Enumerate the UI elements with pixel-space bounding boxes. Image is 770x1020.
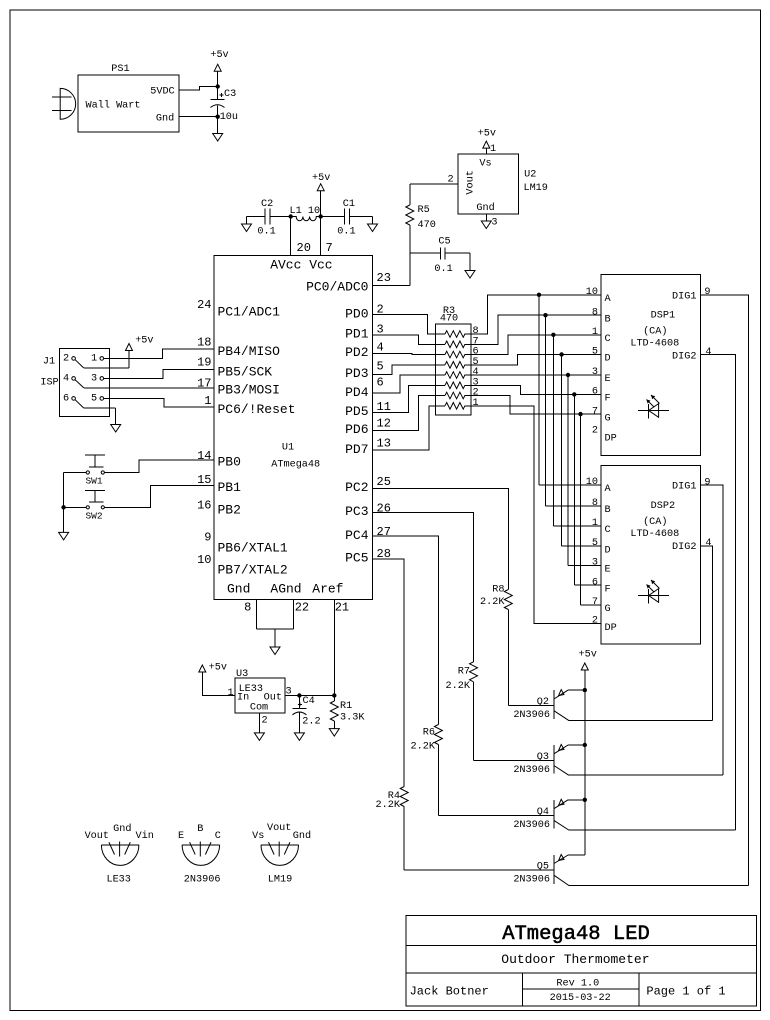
wire segment D xyxy=(471,354,601,364)
svg-text:2.2K: 2.2K xyxy=(411,742,436,753)
svg-text:ATmega48: ATmega48 xyxy=(271,460,320,471)
svg-text:3: 3 xyxy=(285,687,291,698)
svg-text:Vout: Vout xyxy=(466,170,477,194)
svg-text:E: E xyxy=(605,374,611,385)
svg-text:5: 5 xyxy=(377,359,384,373)
resistor R7 xyxy=(470,662,478,682)
svg-text:5: 5 xyxy=(592,347,598,358)
svg-text:2: 2 xyxy=(63,354,69,365)
ground rail xyxy=(63,473,65,533)
svg-text:+5v: +5v xyxy=(478,129,496,140)
svg-text:PD3: PD3 xyxy=(345,366,368,381)
svg-text:C1: C1 xyxy=(343,199,355,210)
svg-text:13: 13 xyxy=(377,437,391,451)
svg-text:+5v: +5v xyxy=(209,662,227,673)
svg-text:3: 3 xyxy=(592,558,598,569)
svg-text:C3: C3 xyxy=(224,89,236,100)
ground at C1 xyxy=(372,217,374,225)
wire segment A xyxy=(471,295,601,334)
svg-text:DIG2: DIG2 xyxy=(672,542,696,553)
svg-text:1: 1 xyxy=(592,327,598,338)
svg-text:8: 8 xyxy=(592,498,598,509)
svg-text:10: 10 xyxy=(586,477,598,488)
transistor Q5 xyxy=(404,855,748,886)
svg-text:PB2: PB2 xyxy=(218,503,241,518)
pin 3 Out wire xyxy=(285,695,334,697)
resistor R3-8 xyxy=(436,331,472,338)
svg-text:C: C xyxy=(215,831,221,842)
svg-text:6: 6 xyxy=(592,387,598,398)
svg-text:F: F xyxy=(605,394,611,405)
svg-text:7: 7 xyxy=(592,406,598,417)
svg-text:LE33: LE33 xyxy=(106,875,130,886)
svg-text:17: 17 xyxy=(197,377,211,391)
pin 21 Aref wire xyxy=(333,599,335,695)
PS1 box xyxy=(78,75,179,132)
svg-text:10u: 10u xyxy=(220,112,238,123)
wire segment F xyxy=(471,385,601,394)
node dot xyxy=(216,84,220,88)
node L1 right xyxy=(319,214,323,218)
svg-text:(CA): (CA) xyxy=(643,326,667,338)
svg-text:1: 1 xyxy=(473,398,479,409)
resistor R3-1 xyxy=(436,403,472,410)
svg-text:2: 2 xyxy=(592,616,598,627)
svg-text:25: 25 xyxy=(377,475,391,489)
svg-text:10: 10 xyxy=(586,287,598,298)
svg-text:2015-03-22: 2015-03-22 xyxy=(550,993,611,1004)
pin 7 wire xyxy=(320,217,322,256)
svg-text:2: 2 xyxy=(448,175,454,186)
wire to pin 23 xyxy=(373,285,410,287)
svg-text:DP: DP xyxy=(605,433,617,444)
svg-text:Outdoor Thermometer: Outdoor Thermometer xyxy=(501,952,649,967)
svg-text:3: 3 xyxy=(491,217,497,228)
resistor R5 xyxy=(409,184,411,205)
svg-text:PD7: PD7 xyxy=(345,442,368,457)
svg-text:DP: DP xyxy=(605,623,617,634)
pin 2 Com ground xyxy=(258,713,260,733)
svg-text:C2: C2 xyxy=(261,199,273,210)
wire Gnd to node xyxy=(179,116,218,118)
capacitor C3 xyxy=(217,87,219,100)
svg-text:Q4: Q4 xyxy=(537,807,549,818)
svg-text:AVcc Vcc: AVcc Vcc xyxy=(270,258,332,273)
svg-text:2.2: 2.2 xyxy=(302,717,320,728)
svg-text:(CA): (CA) xyxy=(643,516,667,528)
svg-text:8: 8 xyxy=(244,600,251,614)
svg-text:22: 22 xyxy=(295,600,309,614)
svg-text:DIG1: DIG1 xyxy=(672,291,696,302)
pin 1 In from +5v xyxy=(202,672,235,696)
svg-text:Q3: Q3 xyxy=(537,752,549,763)
ground xyxy=(217,117,219,134)
svg-text:18: 18 xyxy=(197,335,211,349)
svg-text:LTD-4608: LTD-4608 xyxy=(630,529,679,540)
svg-text:470: 470 xyxy=(440,314,458,325)
LED symbol DSP2 xyxy=(638,580,669,604)
LM19 pinout xyxy=(261,842,299,866)
svg-text:A: A xyxy=(605,294,612,305)
svg-text:SW2: SW2 xyxy=(85,511,102,522)
svg-text:PD2: PD2 xyxy=(345,345,368,360)
svg-text:1: 1 xyxy=(204,394,211,408)
svg-text:DIG2: DIG2 xyxy=(672,351,696,362)
svg-text:3.3K: 3.3K xyxy=(340,712,365,723)
switch SW2 xyxy=(85,489,105,491)
wire segment C xyxy=(471,335,601,355)
svg-text:LM19: LM19 xyxy=(268,875,292,886)
svg-text:PC3: PC3 xyxy=(345,504,368,519)
transistor Q4 xyxy=(438,799,735,830)
resistor R4 xyxy=(400,787,408,807)
svg-text:LM19: LM19 xyxy=(523,183,547,194)
LED symbol DSP1 xyxy=(638,395,669,419)
svg-text:J1: J1 xyxy=(43,357,55,368)
LE33 pinout xyxy=(101,842,138,866)
svg-text:Gnd: Gnd xyxy=(227,582,250,597)
ground at C5 xyxy=(469,253,471,270)
transistor Q2 xyxy=(508,690,712,721)
+5v symbol xyxy=(320,191,322,217)
svg-text:2.2K: 2.2K xyxy=(446,681,471,692)
svg-text:Q2: Q2 xyxy=(537,697,549,708)
svg-text:PB5/SCK: PB5/SCK xyxy=(218,364,273,379)
pin 5 wire to PC6 xyxy=(104,398,214,407)
svg-text:21: 21 xyxy=(335,600,349,614)
svg-text:Gnd: Gnd xyxy=(156,112,174,124)
svg-text:Wall Wart: Wall Wart xyxy=(86,100,141,112)
svg-text:D: D xyxy=(605,545,611,556)
svg-text:Rev 1.0: Rev 1.0 xyxy=(556,978,599,989)
svg-text:ATmega48 LED: ATmega48 LED xyxy=(502,923,650,946)
pin 3 wire to PB5 xyxy=(104,369,214,378)
svg-text:6: 6 xyxy=(592,577,598,588)
svg-text:Jack Botner: Jack Botner xyxy=(410,984,489,998)
wire PC4 to R6 xyxy=(373,536,439,724)
svg-text:In: In xyxy=(237,692,249,703)
wire 5VDC to C3 node xyxy=(179,87,218,91)
svg-text:2.2K: 2.2K xyxy=(480,597,505,608)
svg-text:5VDC: 5VDC xyxy=(150,86,174,97)
svg-text:PC2: PC2 xyxy=(345,480,368,495)
svg-text:PC6/!Reset: PC6/!Reset xyxy=(218,402,296,417)
wire PC5 to R4 xyxy=(373,559,405,787)
svg-text:0.1: 0.1 xyxy=(337,227,355,238)
svg-text:PC1/ADC1: PC1/ADC1 xyxy=(218,304,281,319)
SW2 wire to PB1 xyxy=(104,485,213,507)
svg-text:Gnd: Gnd xyxy=(113,823,131,835)
+5v symbol xyxy=(217,71,219,86)
svg-text:19: 19 xyxy=(197,356,211,370)
resistor R6 xyxy=(434,725,442,745)
+5v rail xyxy=(581,663,588,670)
svg-text:C: C xyxy=(605,525,611,536)
svg-text:470: 470 xyxy=(418,220,436,231)
plug symbol xyxy=(52,88,76,119)
svg-text:F: F xyxy=(605,585,611,596)
svg-text:4: 4 xyxy=(63,374,69,385)
wire segment DP xyxy=(471,406,601,624)
svg-text:PD5: PD5 xyxy=(345,404,368,419)
svg-text:9: 9 xyxy=(704,287,710,298)
svg-text:ISP: ISP xyxy=(40,378,58,389)
resistor R1 xyxy=(333,696,335,702)
svg-text:Page 1 of 1: Page 1 of 1 xyxy=(646,984,725,998)
wire PD2 to R3-6 xyxy=(373,354,436,355)
svg-text:+5v: +5v xyxy=(312,173,330,184)
wire segment B xyxy=(471,315,601,344)
svg-text:1: 1 xyxy=(490,144,496,155)
svg-text:C: C xyxy=(605,334,611,345)
svg-text:PB6/XTAL1: PB6/XTAL1 xyxy=(218,541,288,556)
svg-text:Vs: Vs xyxy=(479,159,491,170)
svg-text:R1: R1 xyxy=(340,701,352,712)
pin 4 wire to PB3 xyxy=(75,380,84,388)
svg-text:2: 2 xyxy=(592,426,598,437)
svg-text:DSP2: DSP2 xyxy=(651,501,675,512)
svg-text:DSP1: DSP1 xyxy=(651,310,675,321)
svg-text:Q5: Q5 xyxy=(537,862,549,873)
pin 2 to +5v xyxy=(75,360,84,368)
SW1 wire to PB0 xyxy=(104,460,213,473)
capacitor C4 xyxy=(298,696,300,709)
svg-text:B: B xyxy=(605,505,611,516)
wire PD1 to R3-7 xyxy=(373,335,436,345)
capacitor C5 xyxy=(410,252,441,254)
transistor Q3 xyxy=(474,745,724,776)
svg-text:PD1: PD1 xyxy=(345,326,369,341)
wire PD0 to R3-8 xyxy=(373,315,436,334)
svg-text:2N3906: 2N3906 xyxy=(513,765,550,776)
svg-text:PB0: PB0 xyxy=(218,455,241,470)
pin 8 wire xyxy=(256,599,258,629)
svg-text:12: 12 xyxy=(377,417,391,431)
switch SW1 xyxy=(85,454,105,456)
svg-text:2N3906: 2N3906 xyxy=(513,820,550,831)
SW2 left wire xyxy=(64,506,87,508)
pin 20 wire xyxy=(290,217,292,256)
svg-text:Vs: Vs xyxy=(252,831,264,842)
svg-text:Com: Com xyxy=(250,702,268,713)
svg-text:C5: C5 xyxy=(438,236,450,247)
svg-text:1: 1 xyxy=(91,354,97,365)
svg-text:PB4/MISO: PB4/MISO xyxy=(218,344,281,359)
svg-text:16: 16 xyxy=(197,498,211,512)
pin 22 wire xyxy=(292,599,294,629)
svg-text:E: E xyxy=(178,831,184,842)
svg-text:PB7/XTAL2: PB7/XTAL2 xyxy=(218,563,288,578)
pin 6 to ground xyxy=(75,400,84,408)
svg-text:A: A xyxy=(605,484,612,495)
svg-text:D: D xyxy=(605,354,611,365)
svg-text:23: 23 xyxy=(377,271,391,285)
svg-text:PC5: PC5 xyxy=(345,550,368,565)
svg-text:2.2K: 2.2K xyxy=(376,800,401,811)
svg-text:U1: U1 xyxy=(282,442,294,453)
wire PD3 to R3-5 xyxy=(373,365,436,375)
svg-text:PC4: PC4 xyxy=(345,528,369,543)
svg-text:Gnd: Gnd xyxy=(293,830,311,842)
svg-text:7: 7 xyxy=(326,241,333,255)
svg-text:Gnd: Gnd xyxy=(476,202,494,214)
ground xyxy=(274,629,276,647)
svg-text:6: 6 xyxy=(63,394,69,405)
capacitor C2 xyxy=(247,216,265,218)
svg-text:PB1: PB1 xyxy=(218,480,242,495)
svg-text:9: 9 xyxy=(704,478,710,489)
svg-text:2N3906: 2N3906 xyxy=(184,875,221,886)
wire PD7 to R3-1 xyxy=(373,406,436,450)
pin 1 wire to PB4 xyxy=(104,349,214,358)
svg-text:+5v: +5v xyxy=(135,336,153,347)
wire PD4 to R3-4 xyxy=(373,375,436,393)
inductor L1 xyxy=(291,217,321,221)
svg-text:LTD-4608: LTD-4608 xyxy=(630,339,679,350)
svg-text:1: 1 xyxy=(592,518,598,529)
svg-text:6: 6 xyxy=(377,376,384,390)
svg-text:+5v: +5v xyxy=(579,650,597,661)
svg-text:20: 20 xyxy=(297,241,311,255)
svg-text:SW1: SW1 xyxy=(85,476,102,487)
svg-text:L1 10: L1 10 xyxy=(290,206,321,217)
svg-text:0.1: 0.1 xyxy=(257,227,275,238)
resistor R3-3 xyxy=(436,382,472,389)
wire PD5 to R3-3 xyxy=(373,385,436,412)
capacitor C1 xyxy=(321,216,345,218)
svg-text:4: 4 xyxy=(705,347,711,358)
svg-text:3: 3 xyxy=(91,374,97,385)
svg-text:8: 8 xyxy=(592,307,598,318)
resistor R3-7 xyxy=(436,341,472,348)
svg-text:AGnd: AGnd xyxy=(270,582,301,597)
wire segment G xyxy=(471,396,601,415)
svg-text:U2: U2 xyxy=(524,170,536,181)
svg-text:R7: R7 xyxy=(458,667,470,678)
wire segment E xyxy=(471,374,601,376)
wire PD6 to R3-2 xyxy=(373,396,436,431)
svg-text:2N3906: 2N3906 xyxy=(513,875,550,886)
SW1 left wire xyxy=(64,472,87,474)
svg-text:27: 27 xyxy=(377,525,391,539)
wire PC3 to R7 xyxy=(373,513,474,662)
svg-text:5: 5 xyxy=(592,538,598,549)
svg-text:3: 3 xyxy=(592,367,598,378)
svg-text:0.1: 0.1 xyxy=(434,264,452,275)
svg-text:E: E xyxy=(605,565,611,576)
svg-text:G: G xyxy=(605,413,611,424)
svg-text:2: 2 xyxy=(261,715,267,726)
svg-text:R6: R6 xyxy=(423,727,435,738)
svg-text:G: G xyxy=(605,604,611,615)
node L1 left xyxy=(289,214,293,218)
svg-text:PC0/ADC0: PC0/ADC0 xyxy=(306,280,368,295)
pin 3 ground xyxy=(485,214,487,221)
svg-text:+5v: +5v xyxy=(210,50,228,61)
2N3906 pinout xyxy=(182,842,220,866)
svg-text:B: B xyxy=(605,315,611,326)
svg-text:7: 7 xyxy=(592,597,598,608)
wire PC2 to R8 xyxy=(373,489,509,590)
svg-text:Vout: Vout xyxy=(85,831,109,842)
svg-text:U3: U3 xyxy=(236,669,248,680)
resistor R3-4 xyxy=(436,372,472,379)
svg-text:R5: R5 xyxy=(418,205,430,216)
svg-text:9: 9 xyxy=(204,530,211,544)
ground at C2 xyxy=(246,217,248,225)
pin 2 wire xyxy=(410,183,458,185)
svg-text:Aref: Aref xyxy=(312,582,343,597)
svg-text:1: 1 xyxy=(227,688,233,699)
joining wire xyxy=(257,628,294,630)
pin circles xyxy=(72,357,76,361)
svg-text:14: 14 xyxy=(197,449,211,463)
pin 1 +5v xyxy=(485,148,487,154)
resistor R8 xyxy=(504,590,512,610)
svg-text:Vout: Vout xyxy=(267,823,291,834)
svg-text:26: 26 xyxy=(377,502,391,516)
svg-text:4: 4 xyxy=(377,340,384,354)
svg-text:4: 4 xyxy=(705,538,711,549)
svg-text:5: 5 xyxy=(91,394,97,405)
svg-text:DIG1: DIG1 xyxy=(672,482,696,493)
svg-text:PS1: PS1 xyxy=(111,64,129,75)
svg-text:Vin: Vin xyxy=(136,830,154,842)
resistor R3-5 xyxy=(436,362,472,369)
svg-text:PD6: PD6 xyxy=(345,422,368,437)
svg-text:PD0: PD0 xyxy=(345,306,368,321)
svg-text:2N3906: 2N3906 xyxy=(513,710,550,721)
svg-text:24: 24 xyxy=(197,298,211,312)
svg-text:PD4: PD4 xyxy=(345,385,369,400)
svg-text:R8: R8 xyxy=(492,585,504,596)
resistor R3-2 xyxy=(436,392,472,399)
svg-text:PB3/MOSI: PB3/MOSI xyxy=(218,383,280,398)
svg-text:C4: C4 xyxy=(303,696,315,707)
svg-text:10: 10 xyxy=(197,553,211,567)
svg-text:B: B xyxy=(197,824,203,835)
resistor R3-6 xyxy=(436,351,472,358)
